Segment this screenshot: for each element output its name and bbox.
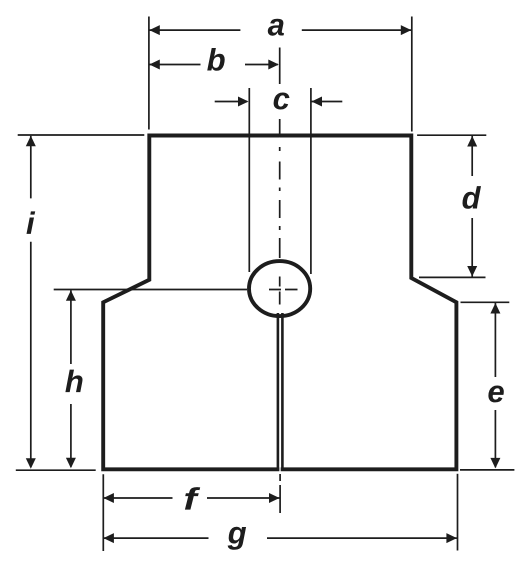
part outline left half xyxy=(103,136,279,470)
dimension d line xyxy=(471,136,473,277)
label i xyxy=(27,211,36,234)
extension line d bottom xyxy=(419,276,486,278)
vertical centerline (solid top segment / b extension) xyxy=(279,48,281,85)
label g xyxy=(228,527,247,550)
dimension c line xyxy=(215,101,343,103)
label c xyxy=(274,93,290,110)
arrowhead a right xyxy=(401,25,412,35)
dimension a line xyxy=(149,29,411,31)
dimension e line xyxy=(494,303,496,467)
arrowhead i bottom xyxy=(26,458,36,469)
arrowhead g right xyxy=(446,533,457,543)
arrowhead g left xyxy=(103,533,114,543)
extension line c right xyxy=(310,88,312,274)
extension line top left (a,b) xyxy=(148,17,150,130)
extension line f/g left xyxy=(102,474,104,551)
arrowhead f right xyxy=(269,493,280,503)
dimension g line xyxy=(103,537,457,539)
arrowhead b left xyxy=(149,60,160,70)
arrowhead h top xyxy=(66,290,76,301)
slot right line xyxy=(281,313,284,471)
arrowhead b right xyxy=(268,60,279,70)
arrowhead c left xyxy=(238,97,249,107)
extension line g right xyxy=(457,474,459,551)
arrowhead d top xyxy=(467,136,477,147)
dimension b line xyxy=(149,64,277,66)
horizontal centerline dashes in hole xyxy=(269,289,298,291)
label b xyxy=(207,48,225,71)
vertical centerline below part xyxy=(279,474,281,513)
dimension h line xyxy=(70,290,72,467)
extension line i top xyxy=(18,134,145,136)
label a xyxy=(268,19,284,36)
extension line i/h bottom xyxy=(16,469,96,471)
arrowhead e bottom xyxy=(490,458,500,469)
dimension i line xyxy=(30,136,32,467)
arrowhead i top xyxy=(26,136,36,147)
extension line c left xyxy=(248,88,250,272)
hole circle xyxy=(249,261,310,316)
horizontal centerline / h extension xyxy=(54,289,247,291)
slot left line xyxy=(277,313,280,471)
dimension f line xyxy=(103,497,279,499)
label f xyxy=(185,487,200,510)
vertical centerline dash-dot xyxy=(279,119,281,305)
arrowhead a left xyxy=(149,25,160,35)
arrowhead f left xyxy=(103,493,114,503)
arrowhead d bottom xyxy=(467,266,477,277)
arrowhead h bottom xyxy=(66,458,76,469)
label h xyxy=(65,370,82,393)
label e xyxy=(488,386,503,403)
extension line e bottom xyxy=(460,469,514,471)
label d xyxy=(463,186,482,209)
arrowhead c right xyxy=(312,97,323,107)
extension line e top xyxy=(461,301,510,303)
arrowhead e top xyxy=(490,303,500,314)
extension line top right (a) xyxy=(411,17,413,132)
extension line d top xyxy=(417,134,486,136)
part outline right half xyxy=(280,136,457,470)
